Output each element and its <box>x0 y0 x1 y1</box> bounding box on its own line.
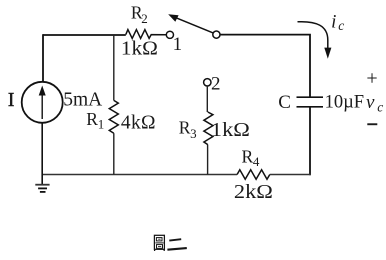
wire: R1 branch drop from top rail <box>113 35 115 100</box>
caption 圖二 (drawn glyphs) <box>154 235 186 251</box>
svg-text:2kΩ: 2kΩ <box>234 182 273 203</box>
svg-text:3: 3 <box>190 126 197 141</box>
resistor R2 <box>126 30 167 39</box>
svg-text:1: 1 <box>98 117 105 132</box>
svg-text:v: v <box>366 92 375 113</box>
svg-text:2: 2 <box>211 73 221 94</box>
node 2 circle <box>204 79 211 86</box>
wire: switch contact to top-right corner <box>220 35 310 97</box>
wire: bottom rail left of R4 <box>42 174 237 176</box>
wire: right rail below capacitor <box>309 107 311 175</box>
capacitor C plates <box>297 96 324 98</box>
label - (vc polarity) <box>367 123 377 125</box>
wire: left rail upper segment <box>42 34 44 82</box>
resistor R1 <box>109 100 118 133</box>
svg-text:4: 4 <box>253 154 260 169</box>
current source I circle <box>22 82 63 123</box>
svg-text:i: i <box>331 11 336 32</box>
current arrow ic <box>298 22 328 49</box>
svg-text:4kΩ: 4kΩ <box>121 113 156 134</box>
switch blade with arrow tip <box>176 18 214 33</box>
svg-text:I: I <box>8 90 14 111</box>
wire: R3 bottom to bottom rail <box>207 145 209 175</box>
wire: node 2 to R3 <box>206 86 208 112</box>
svg-text:R: R <box>86 109 98 129</box>
ground <box>41 175 43 185</box>
wire: left rail lower segment <box>41 123 43 175</box>
svg-text:1kΩ: 1kΩ <box>121 38 158 59</box>
svg-text:C: C <box>278 92 291 113</box>
wire: top rail from left corner to R2 <box>43 34 126 36</box>
resistor R4 <box>237 170 270 180</box>
svg-text:1kΩ: 1kΩ <box>211 120 250 141</box>
wire: bottom rail right of R4 <box>270 174 311 176</box>
svg-text:5mA: 5mA <box>63 90 102 111</box>
svg-text:c: c <box>377 100 383 115</box>
svg-text:R: R <box>179 118 191 138</box>
svg-text:+: + <box>366 67 377 89</box>
svg-text:2: 2 <box>141 11 148 26</box>
node 1 circle (switch pole) <box>166 31 173 38</box>
svg-text:1: 1 <box>173 34 183 55</box>
wire: R1 bottom to bottom rail <box>113 133 115 174</box>
svg-text:10µF: 10µF <box>325 93 364 113</box>
svg-text:c: c <box>338 18 344 33</box>
switch contact circle <box>213 31 220 38</box>
current source arrow (pointing up) <box>41 92 43 119</box>
resistor R3 <box>204 112 213 145</box>
svg-text:R: R <box>242 146 254 166</box>
